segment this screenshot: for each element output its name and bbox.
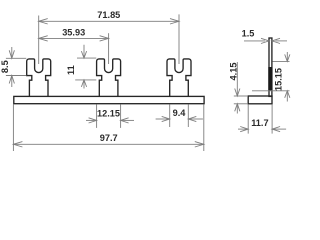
svg-text:71.85: 71.85 (97, 10, 120, 20)
svg-text:12.15: 12.15 (97, 108, 120, 118)
side view plate thick black part (268, 67, 272, 90)
fork terminal 1 (27, 59, 51, 97)
dim 15.15 (right side) (252, 52, 290, 102)
svg-text:97.7: 97.7 (100, 133, 118, 143)
side view busbar cross-section (248, 96, 272, 104)
fork terminal 3 (167, 59, 191, 97)
dim 8.5 (left) (0, 47, 26, 87)
fork terminal 2 (97, 59, 121, 97)
dim 97.7 (bottom) (13, 104, 203, 151)
busbar (front view) (14, 96, 204, 103)
svg-text:11.7: 11.7 (251, 118, 268, 128)
svg-text:9.4: 9.4 (173, 108, 187, 118)
svg-text:4.15: 4.15 (228, 63, 238, 81)
svg-text:15.15: 15.15 (274, 68, 284, 91)
side view plate (269, 38, 272, 96)
dim 11 (fork 2 height) (66, 45, 96, 89)
dim 1.5 (plate thickness) (242, 29, 287, 44)
dim 12.15 (below bar, fork2 width) (86, 104, 134, 128)
svg-text:8.5: 8.5 (0, 60, 10, 73)
dim 11.7 (bottom of side view) (238, 104, 286, 133)
svg-text:1.5: 1.5 (242, 29, 255, 39)
dim 71.85 (39, 10, 179, 64)
svg-text:11: 11 (66, 65, 76, 75)
svg-text:35.93: 35.93 (62, 27, 85, 37)
dim 9.4 (below bar, fork3 foot) (156, 104, 203, 127)
dim 35.93 (39, 27, 109, 64)
dim 4.15 (bar thickness, left of side view) (228, 62, 248, 114)
